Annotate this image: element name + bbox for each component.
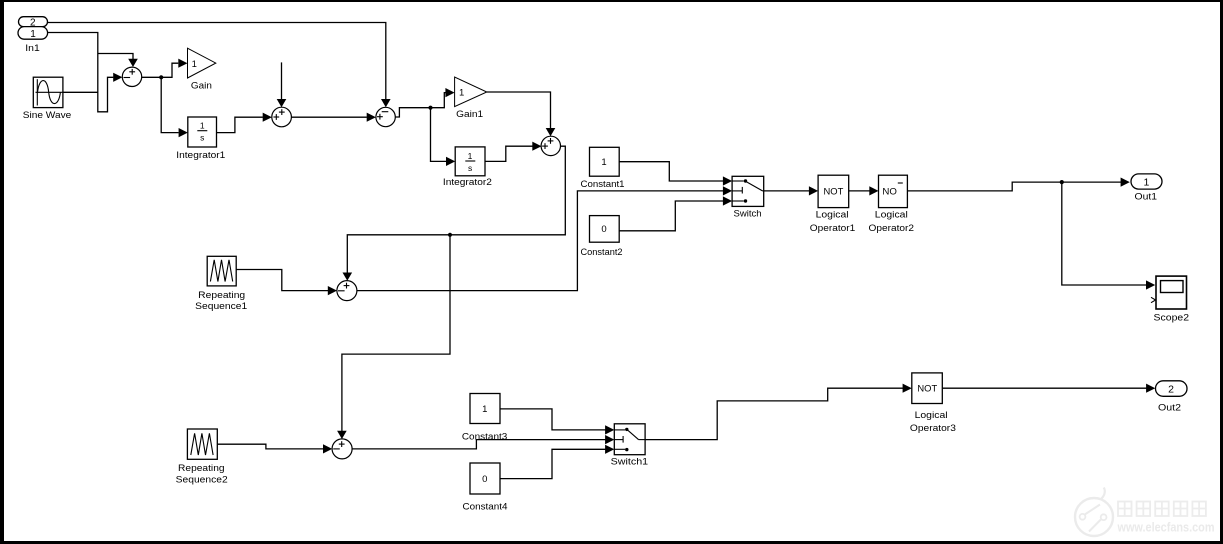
svg-text:Logical: Logical <box>816 210 849 220</box>
constant Constant4 <box>463 463 508 512</box>
integrator Integrator1 <box>176 117 225 160</box>
sum Sum4 <box>541 136 560 155</box>
integrator Integrator2 <box>443 147 492 187</box>
svg-text:Out1: Out1 <box>1135 192 1158 202</box>
wire RepeatingSequence1 to Sum5 <box>236 270 328 291</box>
svg-text:Repeating: Repeating <box>198 290 245 300</box>
svg-text:Constant1: Constant1 <box>581 179 625 189</box>
svg-text:Operator3: Operator3 <box>910 423 956 433</box>
sum Sum6 <box>332 439 352 459</box>
node junction J4 <box>1060 180 1064 184</box>
svg-text:NOT: NOT <box>917 384 937 394</box>
wire Switch to LogicalOperator1 <box>764 190 810 192</box>
logical operator NOT U3 <box>910 373 956 433</box>
switch Switch1 <box>611 424 649 467</box>
watermark logo elecfans <box>1075 488 1113 537</box>
svg-text:1: 1 <box>192 59 197 70</box>
node junction J1 <box>159 75 163 79</box>
svg-text:www.elecfans.com: www.elecfans.com <box>1117 521 1215 535</box>
wire Sum4 output down-left to Sum5 top <box>347 146 565 273</box>
svg-text:Switch: Switch <box>734 208 762 218</box>
wire Constant4 to Switch1 input3 <box>500 449 606 478</box>
svg-text:Sequence2: Sequence2 <box>176 475 228 485</box>
svg-text:Integrator1: Integrator1 <box>176 150 225 160</box>
wire Constant2 to Switch input3 <box>619 201 723 231</box>
wire In2 to Sum3 top <box>48 23 386 100</box>
sum Sum3 <box>376 107 395 126</box>
svg-text:1: 1 <box>459 87 464 98</box>
svg-text:Out2: Out2 <box>1158 402 1181 412</box>
logical operator NOT U2 <box>869 175 915 233</box>
inport In1 port 2 <box>19 17 48 29</box>
svg-text:1: 1 <box>468 151 473 161</box>
wire RepeatingSequence2 to Sum6 <box>217 444 323 449</box>
wire J4 to Scope2 <box>1062 182 1147 285</box>
svg-text:0: 0 <box>601 224 606 235</box>
svg-text:1: 1 <box>482 404 487 415</box>
constant Constant3 <box>462 394 508 442</box>
constant Constant1 <box>581 147 625 189</box>
svg-text:Logical: Logical <box>915 410 948 420</box>
wire stub into Sum2 top <box>281 62 283 99</box>
svg-text:Integrator2: Integrator2 <box>443 177 492 187</box>
wire Integrator2 to Sum4 <box>485 146 533 161</box>
scope Scope2 <box>1151 276 1189 322</box>
wire Switch1 to LogicalOperator3 <box>645 388 903 439</box>
constant Constant2 <box>581 216 623 258</box>
svg-text:NOT: NOT <box>824 186 844 196</box>
switch Switch <box>732 176 764 218</box>
svg-text:Sine Wave: Sine Wave <box>23 110 72 120</box>
svg-text:1: 1 <box>30 29 36 40</box>
wire Constant1 to Switch input1 <box>619 162 723 181</box>
sum Sum1 <box>122 67 141 86</box>
svg-text:2: 2 <box>1168 384 1174 396</box>
svg-text:1: 1 <box>601 157 606 168</box>
sum Sum5 <box>337 281 357 301</box>
svg-text:s: s <box>468 163 472 173</box>
block Sine Wave <box>23 77 72 120</box>
inport In1 port 1 <box>18 27 48 53</box>
wire Sum6 output to Switch1 middle <box>352 440 606 449</box>
svg-text:Operator2: Operator2 <box>869 223 915 233</box>
node junction J3 <box>448 233 452 237</box>
watermark text 电子发烧友 (CJK approximated with strokes) <box>1118 502 1206 517</box>
svg-text:Logical: Logical <box>875 210 908 220</box>
svg-text:Constant4: Constant4 <box>463 502 508 512</box>
svg-text:1: 1 <box>200 121 205 131</box>
svg-text:NO: NO <box>882 186 897 196</box>
wire Sum3 output to Gain1 <box>395 93 446 117</box>
svg-text:s: s <box>200 133 204 143</box>
wire LogicalOperator1 to LogicalOperator2 <box>849 190 870 192</box>
svg-text:Constant2: Constant2 <box>581 247 623 257</box>
wire J3 down to Sum6 top <box>342 235 450 431</box>
wire Integrator1 to Sum2 <box>217 117 263 132</box>
svg-text:Gain: Gain <box>191 81 212 91</box>
svg-text:Scope2: Scope2 <box>1154 312 1190 322</box>
block Repeating Sequence1 <box>195 256 247 311</box>
svg-text:Repeating: Repeating <box>178 463 225 473</box>
svg-text:Switch1: Switch1 <box>611 457 649 467</box>
svg-text:Constant3: Constant3 <box>462 431 508 441</box>
gain Gain1 <box>455 77 487 119</box>
wire Sum2 to Sum3 <box>291 116 367 118</box>
block Repeating Sequence2 <box>176 429 228 485</box>
wire Sum5 output to Switch middle <box>357 191 724 291</box>
wire J1 to Gain <box>161 63 178 77</box>
wire Sum1 output to junction <box>142 76 162 78</box>
wire Gain1 to Sum4 top <box>487 92 551 128</box>
node junction J2 <box>428 106 432 110</box>
gain Gain <box>188 48 216 90</box>
wire Constant3 to Switch1 input1 <box>500 409 606 430</box>
svg-text:1: 1 <box>1143 176 1149 188</box>
logical operator NOT U1 <box>810 175 856 233</box>
wire J1 to Integrator1 <box>161 77 178 132</box>
svg-text:Sequence1: Sequence1 <box>195 301 247 311</box>
svg-text:Operator1: Operator1 <box>810 223 856 233</box>
wire J2 to Integrator2 <box>431 108 447 162</box>
outport Out1 <box>1131 174 1162 202</box>
wire LogicalOperator2 to Out1 <box>907 182 1121 191</box>
wire Sine Wave output <box>63 91 98 93</box>
svg-text:0: 0 <box>482 474 487 485</box>
wire branch In1 to Sum1 top <box>98 54 133 60</box>
wire In1 to Sum1 left (via U route) <box>48 33 114 112</box>
sum Sum2 <box>272 107 292 127</box>
svg-text:In1: In1 <box>25 43 40 53</box>
svg-text:Gain1: Gain1 <box>456 109 483 119</box>
wire LogicalOperator3 to Out2 <box>942 387 1146 389</box>
outport Out2 <box>1156 381 1188 413</box>
